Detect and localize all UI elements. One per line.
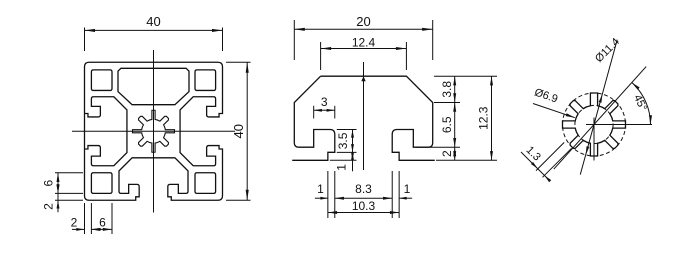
svg-text:40: 40 — [231, 124, 246, 138]
dim 1 vertical (middle) — [330, 152, 357, 171]
right view: leader line D6.9 — [533, 86, 575, 117]
dim 2 bottom — [71, 203, 100, 234]
svg-text:1: 1 — [317, 182, 324, 196]
dim 12.4 (middle) — [321, 36, 407, 70]
svg-text:6.5: 6.5 — [440, 116, 454, 133]
right view: dashed circle D6.9 — [575, 105, 613, 143]
dim 3 (middle hook width) — [314, 95, 335, 119]
left view: centerlines — [72, 50, 235, 213]
right view: dashed circle D11.4 — [563, 93, 626, 156]
left view: corner chamber BR — [195, 173, 216, 194]
dim 20 (middle) — [294, 14, 432, 60]
svg-text:6: 6 — [42, 179, 56, 186]
left view: corner chamber TR — [195, 70, 216, 91]
svg-text:8.3: 8.3 — [355, 182, 372, 196]
middle view: centerline — [361, 62, 365, 170]
svg-text:1: 1 — [335, 164, 349, 171]
right view: dim 1.3 — [521, 142, 572, 182]
middle view: slot module section outline right half — [321, 76, 435, 160]
dims 1 8.3 1 and 10.3 (middle bottom) — [315, 171, 412, 218]
svg-text:6: 6 — [99, 216, 106, 230]
svg-text:2: 2 — [440, 150, 454, 157]
left view: center star hole — [133, 110, 175, 152]
left view: corner chamber TL — [91, 70, 112, 91]
svg-text:20: 20 — [356, 14, 370, 29]
right view: leader line D11.4 — [580, 36, 622, 175]
middle view: slot module section outline left half — [292, 76, 335, 160]
svg-text:40: 40 — [146, 14, 160, 29]
dim 6 bottom — [91, 203, 112, 234]
svg-text:2: 2 — [71, 216, 78, 230]
dims 3.8 6.5 2 and 12.3 (middle right) — [416, 76, 497, 160]
svg-text:2: 2 — [42, 203, 56, 210]
dim 6 left side — [42, 173, 84, 194]
svg-text:12.4: 12.4 — [352, 36, 376, 50]
right view: 45 deg ray through center — [554, 67, 646, 170]
svg-text:3: 3 — [321, 95, 328, 109]
svg-text:1: 1 — [404, 182, 411, 196]
left view: corner chamber BL — [91, 173, 112, 194]
dim 3.5 (middle) — [336, 129, 357, 152]
svg-text:10.3: 10.3 — [352, 199, 376, 213]
right view: 45 degree dim — [586, 83, 652, 161]
left view: top closed cavity — [118, 68, 189, 104]
dim 2 left side — [42, 185, 84, 212]
dim 40 top (left view) — [85, 14, 223, 51]
left view: 40x40 profile cross-section outline — [85, 62, 223, 200]
svg-text:3.5: 3.5 — [336, 132, 350, 149]
right view: star hole detail outline — [563, 93, 626, 156]
dim 40 right (left view) — [226, 62, 251, 200]
svg-text:3.8: 3.8 — [440, 81, 454, 98]
svg-text:12.3: 12.3 — [477, 106, 491, 130]
